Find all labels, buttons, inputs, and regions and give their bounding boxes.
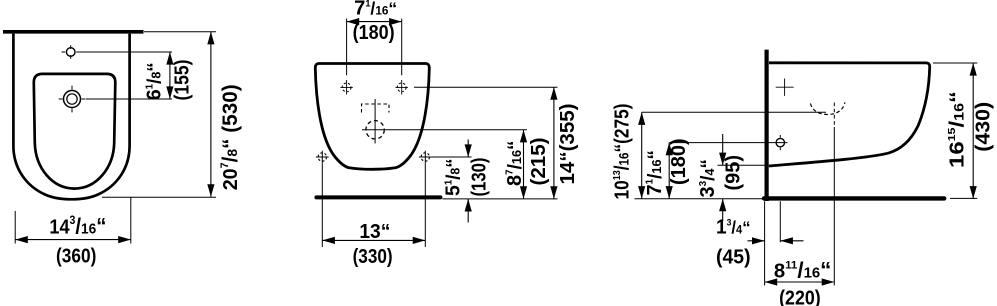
top cross left: [340, 83, 352, 92]
svg-text:(155): (155): [171, 60, 193, 101]
svg-text:(180): (180): [353, 22, 395, 44]
svg-text:33/4“: 33/4“: [697, 159, 719, 197]
ext line down from right cross (330 dim): [424, 163, 426, 247]
wall line: [764, 50, 768, 201]
dim line 220: [765, 281, 835, 283]
bottom ext line left of wall: [635, 198, 764, 200]
ext line 430 top: [933, 62, 977, 64]
leader drain to dim: [86, 98, 172, 100]
side cross left: [316, 151, 329, 164]
top ext line left (from cross to top dim): [346, 19, 348, 76]
svg-text:(330): (330): [353, 246, 393, 268]
ext line 530 bottom: [102, 196, 216, 198]
dashed drain arc: [811, 102, 845, 114]
bottom ext line to right dims: [442, 198, 557, 200]
dim 45 left segment: [748, 240, 765, 242]
bidet front body outline: [315, 64, 429, 170]
dashed drain centerline: [833, 103, 835, 128]
faucet hole circle: [62, 45, 80, 59]
dim line 430: [972, 63, 974, 199]
ext line 530 top: [144, 31, 216, 33]
dim line 215: [523, 130, 525, 199]
fixing hole circle: [776, 135, 784, 150]
svg-text:14“(355): 14“(355): [557, 104, 579, 185]
dim line 530: [210, 32, 212, 197]
svg-text:(180): (180): [668, 138, 690, 185]
ext line 95 (to body bottom at wall): [718, 164, 767, 166]
svg-text:(220): (220): [779, 288, 821, 306]
ext line 45 left (wall below floor): [764, 201, 766, 285]
top ext line right: [401, 19, 403, 76]
ext line 360 left: [14, 211, 16, 244]
ext line 275 (to drain arc): [642, 111, 826, 113]
drain hole circles: [59, 86, 86, 113]
faucet dashed circle: [366, 121, 384, 139]
ext line 45 right (hole axis below floor): [779, 201, 781, 242]
floor bar: [316, 195, 440, 199]
ext line 355 top (from top cross to dim): [414, 86, 558, 88]
faucet horizontal line + leader to 215 dim: [362, 129, 527, 131]
dim line 355: [553, 87, 555, 199]
plus cross: [776, 79, 794, 96]
floor bar: [764, 196, 944, 200]
svg-text:1013/16“(275): 1013/16“(275): [612, 104, 634, 200]
svg-text:(360): (360): [56, 245, 96, 267]
top dim line 180: [347, 21, 402, 23]
dim 130 upper segment: [467, 140, 469, 158]
dim 45 right segment: [780, 240, 803, 242]
dim 130 lower segment: [467, 199, 469, 223]
svg-text:143/16“: 143/16“: [49, 213, 106, 238]
ext line 430 bottom: [950, 197, 977, 199]
svg-text:61/8“: 61/8“: [144, 62, 166, 100]
svg-text:(430): (430): [973, 102, 995, 152]
dim line 155: [169, 52, 171, 99]
bidet side profile: [769, 63, 930, 166]
ext line 360 right: [130, 197, 132, 243]
bidet outer body outline: [13, 34, 129, 200]
svg-text:(215): (215): [528, 138, 550, 186]
svg-text:13/4“: 13/4“: [716, 216, 751, 238]
svg-text:(95): (95): [722, 155, 744, 191]
side cross right: [419, 151, 432, 164]
svg-text:207/8“ (530): 207/8“ (530): [219, 84, 242, 190]
svg-text:(130): (130): [469, 158, 491, 197]
svg-text:(45): (45): [716, 247, 751, 269]
dashed supply template: [362, 104, 390, 113]
top cross right: [396, 83, 408, 92]
drain centerline extension down: [833, 127, 835, 286]
wall line: [3, 30, 144, 34]
leader from right side cross to 130 dim: [432, 156, 472, 158]
bidet inner rim: [34, 74, 116, 189]
dim 95 upper segment: [722, 134, 724, 165]
dim line 180: [668, 143, 670, 199]
dim line 330: [322, 239, 425, 241]
leader faucet to dim: [80, 51, 172, 53]
faucet centerline vertical: [374, 99, 376, 144]
dim line 275: [641, 112, 643, 198]
ext line 180 (through hole): [669, 142, 787, 144]
ext line down from left cross (330 dim): [321, 163, 323, 247]
svg-text:13“: 13“: [359, 221, 390, 243]
svg-text:51/8“: 51/8“: [443, 159, 465, 197]
dim line 360: [15, 239, 131, 241]
dim 95 lower segment: [722, 199, 724, 221]
svg-text:811/16“: 811/16“: [774, 258, 832, 283]
